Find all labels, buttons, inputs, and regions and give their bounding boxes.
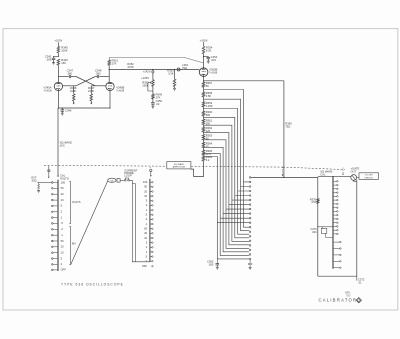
svg-text:+105V: +105V [141,76,149,80]
current switch contact 10 [150,237,152,239]
gate switch contact 13 [334,225,337,227]
current switch contact 50 [150,228,152,230]
switch 3 contact 3 [249,186,251,188]
svg-text:75Ω: 75Ω [285,125,290,129]
svg-text:.01: .01 [358,280,362,284]
gate switch lower contact 4 [334,260,340,262]
current switch contact 1 [150,209,152,211]
svg-text:LOOP: LOOP [124,173,132,177]
wire switch 3 output to right [251,176,318,178]
current switch contact 5 [150,242,152,244]
ground below C354 [207,60,210,62]
crossover diagonal A (V345A plate to V345B grid) [76,77,95,86]
svg-text:10: 10 [144,236,147,240]
resistor R353 to ground [174,70,176,80]
wire bracket output diagonal to CAL OUT jack [71,181,108,265]
wire R345 to junction [57,53,59,57]
wire ladder segment above R357 [203,81,205,82]
wire gate section bottom rail [318,275,357,277]
gate switch contact 8 [334,207,337,209]
wire divider tap 1 drop [204,90,250,182]
wiper arrow voltage switch [57,176,59,178]
wire cathode to divider top [203,76,205,80]
gate switch contact 9 [334,210,337,212]
wire R351 top runs right [109,57,184,59]
Tektronix crafted-symbol [356,297,362,303]
pot wiper arrow [148,82,150,84]
current switch OFF stub [152,266,154,268]
voltage switch contact .1 [52,234,54,236]
current switch contact .2 [150,218,152,220]
wire divider tap 10 lower branch [217,223,249,259]
svg-text:100: 100 [143,180,148,184]
wire V345B plate coupling run [99,76,109,78]
wire jack to loop terminal [120,179,124,181]
wire divider tap 7 lower branch [226,209,249,248]
gate section left rail [317,177,319,276]
svg-text:CIRCUIT: CIRCUIT [364,177,374,179]
wire divider tap 4 lower branch [235,196,249,238]
capacitor C345 [52,57,56,59]
node 75 ohm line junction [283,177,284,178]
wire divider tap 5 lower branch [232,200,249,241]
switch 3 contact 13 [249,231,251,233]
wire divider tap 10 drop [204,157,250,223]
wire ladder bottom to amplitude pot [191,161,204,176]
current switch contact 5 [150,200,152,202]
wire V345A cathode down [57,91,59,108]
svg-text:+100V: +100V [54,39,62,43]
svg-text:8.2K: 8.2K [206,48,212,52]
svg-text:10: 10 [61,251,64,255]
svg-text:½ 6U8: ½ 6U8 [209,71,217,75]
svg-text:50: 50 [144,185,147,189]
voltage switch contact 2 [52,211,54,213]
resistor R366 6.2 (divider) [202,156,205,161]
svg-text:10: 10 [61,198,64,202]
potentiometer R350 SQ WAVE AMPL [152,80,155,87]
current switch contact 100 [150,181,152,183]
wire divider tap 9 lower branch [220,218,249,255]
wire ladder segment above R366 [203,154,205,157]
panel bubble (adjust) on divider [152,70,154,71]
voltage switch contact 2 [52,264,54,266]
svg-text:100K: 100K [61,49,67,53]
wire ladder segment above R361 [203,116,205,119]
switch 3 contact 16 [249,245,251,247]
wire loop legs to current switch bottom [132,259,150,262]
switch 3 contact 4 [249,190,251,192]
wire pot to R350B [152,86,154,93]
voltage switch contact 5 [52,258,54,260]
voltage switch contact 1 [52,217,54,219]
switch 3 contact 18 [249,254,251,256]
voltage switch contact .2 [52,229,54,231]
svg-text:MV: MV [72,242,76,246]
current switch contact .5 [150,214,152,216]
wire divider tap 9 drop [204,153,250,218]
svg-text:20: 20 [144,189,147,193]
arrow to -150V (left grid return) [73,101,75,104]
svg-text:50: 50 [61,186,64,190]
TO CRT CIRCUIT box [359,173,379,180]
ground below R343 [37,190,40,192]
wire R351 to plate [108,65,110,76]
node plate supply junction [58,56,59,57]
svg-text:470K: 470K [127,65,133,69]
svg-text:3.3K: 3.3K [168,72,174,76]
voltage switch contact 10 [52,199,54,201]
gate switch contact 3 [334,188,337,190]
wire divider tap 5 drop [204,125,250,200]
svg-text:20: 20 [61,192,64,196]
wire loop leg A down [129,180,132,258]
wire C347 to crossover [71,76,76,78]
svg-text:C346: C346 [65,109,72,113]
wire divider tap 2 drop [204,99,250,186]
wire divider tap 1 lower branch [244,182,250,227]
wire output run to 75 ohm line [204,80,284,82]
voltage switch contact .5 [52,223,54,225]
triode V345A [54,82,62,90]
ground below switch 3 stub [249,266,252,268]
svg-text:SQ WAVE: SQ WAVE [174,163,185,166]
svg-text:1KC: 1KC [60,143,65,147]
voltage switch OFF contact [52,269,54,271]
ganged switch dashed line [44,164,167,167]
wire ladder segment above R364 [203,140,205,143]
current switch contact .1 [150,223,152,225]
wire R346 to V345A plate [57,65,59,82]
wire divider tap 6 drop [204,133,250,205]
switch 3 contact 9 [249,213,251,215]
svg-text:.001: .001 [211,58,217,62]
svg-text:VOLTS: VOLTS [60,176,69,180]
wire divider tap 4 drop [204,117,250,195]
gate switch lower contact 5 [334,267,340,269]
svg-text:360: 360 [68,71,73,75]
switch 3 contact 14 [249,236,251,238]
resistor R345 [57,47,60,53]
wire gate wiper feed [318,175,351,177]
svg-text:100: 100 [61,180,66,184]
wire connector to box [357,177,359,179]
wire ladder segment above R358 [203,87,205,92]
ground below C346 [61,112,64,114]
svg-text:TO CRT: TO CRT [365,175,374,177]
wire divider tap 3 lower branch [238,191,249,234]
svg-text:250: 250 [206,121,211,125]
wire ladder segment above R365 [203,148,205,151]
svg-text:20: 20 [144,231,147,235]
wire ladder segment above R359 [203,97,205,102]
wire R350B to C350 [152,99,154,103]
wire divider tap 3 drop [204,109,250,192]
wire ladder segment above R360 [203,107,205,111]
gate switch contact 1 [334,180,337,182]
wire 75 ohm drop line [283,81,285,178]
voltage switch rotor bus [57,180,59,271]
svg-text:50: 50 [144,227,147,231]
current probe loop wire [125,178,128,179]
wire diagonal to +100V node [184,57,203,63]
resistor R362 125 (divider) [202,127,205,132]
svg-text:.005: .005 [46,58,52,62]
svg-text:220K: 220K [88,89,94,93]
wire loop leg B down [132,184,135,259]
jack mounting square [117,179,120,183]
capacitor C365 [216,259,218,264]
resistor R370 in left rail [317,199,320,204]
wire ladder segment above R363 [203,132,205,134]
wire RC branch to rotor [318,226,333,228]
gate switch contact 11 [334,218,337,220]
svg-text:CALIBRATOR: CALIBRATOR [319,297,358,302]
wire V345B cathode down [109,91,111,108]
resistor R354 [202,46,205,54]
switch 3 contact 12 [249,226,251,228]
triode V352B cathode follower [199,68,208,77]
switch 3 bottom stub contact [248,263,249,264]
resistor R364 25 (divider) [202,142,205,147]
capacitor C350 [151,102,155,104]
resistor R350B 27K [152,94,155,99]
capacitor C354 [207,56,211,58]
gate switch contact 15 [334,233,337,235]
switch 3 contact 15 [249,240,251,242]
capacitor C348 (right coupling) [96,75,98,78]
node V345B plate output [109,69,110,70]
svg-text:75Ω: 75Ω [182,66,187,70]
switch 3 contact 19 [249,258,251,260]
svg-text:.005: .005 [208,263,214,267]
voltage switch contact 10 [52,252,54,254]
ground below C365 [216,266,219,268]
voltage switch contact 100 [52,182,54,184]
crossover diagonal B (V345B plate to V345A grid) [76,77,95,86]
wire to C345 [54,56,59,58]
voltage switch contact 20 [52,193,54,195]
svg-text:AMPLITUDE: AMPLITUDE [173,166,186,169]
switch 3 contact 6 [249,199,251,201]
bracket VOLTS group [69,182,70,224]
current switch contact 2 [150,246,152,248]
triode V345B [106,82,114,90]
resistor R365 12.5 (divider) [202,150,205,155]
ground below C350 [152,105,155,107]
current switch contact .2 [150,260,152,262]
current switch contact 20 [150,232,152,234]
switch 3 contact 11 [249,222,251,224]
svg-text:50Ω: 50Ω [32,179,37,183]
svg-text:25: 25 [206,144,209,148]
gate switch contact 12 [334,222,337,224]
resistor R359 1.25K (divider) [202,102,205,107]
capacitor C347 (left coupling) [68,75,70,78]
wire divider tap 2 lower branch [241,187,250,231]
wire grid V345A entry [62,85,76,87]
resistor R357 5K (divider) [202,82,205,87]
switch 3 contact 10 [249,217,251,219]
current switch contact 10 [150,195,152,197]
ground below C345 [52,62,55,64]
svg-text:½ 6U8: ½ 6U8 [44,89,52,93]
current switch contact .5 [150,256,152,258]
wire ladder segment above R362 [203,125,205,127]
resistor R347 (V345B grid) [90,86,92,94]
gate switch lower contact 2 [334,248,340,250]
svg-text:27K: 27K [156,95,161,99]
svg-text:6.2: 6.2 [206,158,210,162]
svg-text:15K: 15K [61,61,66,65]
gate switch contact 4 [334,192,337,194]
current switch contact 2 [150,204,152,206]
wire C370 connections [322,227,324,229]
resistor R361 250 (divider) [202,119,205,124]
svg-text:27K: 27K [112,61,117,65]
svg-text:27K: 27K [311,200,316,204]
gate switch contact 7 [334,203,337,205]
node C354 branch [203,56,204,57]
svg-text:500: 500 [206,113,211,117]
current switch rotor bus [149,179,151,262]
wire divider tap 6 lower branch [229,205,249,245]
svg-text:½ 6U8: ½ 6U8 [116,89,124,93]
resistor R351 (V345B plate load) [108,60,111,66]
wire square wave feed to voltage switch [57,108,59,176]
switch 3 contact 7 [249,204,251,206]
voltage switch contact 50 [52,240,54,242]
svg-text:20: 20 [61,245,64,249]
resistor R358 2.5K (divider) [202,92,205,97]
resistor R363 50 (divider) [202,134,205,139]
wire bottom stub [356,276,358,280]
gate switch contact 2 [334,184,337,186]
wire wiper tap [148,83,153,91]
svg-text:+142V: +142V [143,70,151,74]
gate switch contact 6 [334,199,337,201]
wire divider tap 8 lower branch [223,214,249,252]
switch 3 contact 2 [249,181,251,183]
switch 3 contact 1 [249,177,251,179]
capacitor C346 to ground [61,108,63,110]
svg-text:OFF: OFF [142,264,148,268]
coupling capacitor C344 from gang line [48,166,50,170]
ganged dashed drop and bubble (current switch) [150,167,152,169]
node divider top [203,80,204,81]
gate switch contact 14 [334,229,337,231]
wire EXT input [37,182,51,184]
svg-text:OUT: OUT [351,170,357,174]
wire main square-wave line to follower grid [109,69,199,71]
switch 3 contact 17 [249,249,251,251]
gate switch lower contact 1 [334,241,340,243]
wire divider tap 7 drop [204,140,250,209]
voltage switch contact 20 [52,246,54,248]
voltage switch contact 5 [52,205,54,207]
svg-text:2.5K: 2.5K [206,94,212,98]
wire to C354 [204,56,209,59]
wire bubble to pot [152,73,154,80]
resistor R360 500 (divider) [202,111,205,116]
gate switch contact 5 [334,195,337,197]
gate section right rail [356,180,358,277]
ganged dashed drop (gate switch) [342,168,344,174]
svg-text:220K: 220K [70,89,76,93]
bracket MILLIVOLTS group [69,227,70,265]
current probe loop terminals [124,179,126,181]
svg-text:.02: .02 [156,102,160,106]
svg-text:1.25K: 1.25K [206,104,213,108]
resistor R343 EXT termination [38,183,40,185]
svg-text:5K: 5K [206,84,209,88]
wire divider tap 8 drop [204,147,250,213]
capacitor C370 box [321,228,327,233]
svg-text:OFF: OFF [61,268,67,272]
gate switch rotor bus [332,176,334,268]
resistor R346 [57,59,60,65]
switch 3 contact 5 [249,195,251,197]
svg-text:50: 50 [61,239,64,243]
svg-text:+100V: +100V [200,38,208,42]
ganged-switch dashed drop (switch 3) [282,167,284,175]
+GATE output connector [351,175,357,181]
resistor R348 (V345A grid) [73,86,75,94]
current switch contact 20 [150,191,152,193]
svg-text:VOLTS: VOLTS [72,200,81,204]
wire cathode rail [58,107,110,109]
parasitic suppressor bead on grid line [177,68,180,71]
wire V345A plate coupling run [58,76,68,78]
node divider pickoff [152,69,153,70]
wire C348 to crossover [95,76,97,78]
svg-text:360: 360 [96,71,101,75]
voltage switch contact 50 [52,188,54,190]
CAL OUT jack oval [108,178,116,182]
arrow to -150V (right grid return) [90,101,92,104]
svg-text:.001: .001 [312,230,318,234]
svg-text:10: 10 [144,194,147,198]
wire R354 to plate [203,54,205,68]
switch 3 contact 8 [249,208,251,210]
SQ WAVE AMPLITUDE control box [167,162,191,169]
gate switch contact 10 [334,214,337,216]
gate switch lower contact 3 [334,254,340,256]
current switch contact 1 [150,251,152,253]
current switch contact 50 [150,186,152,188]
ground below R353 [173,87,176,89]
wire grid V345B entry [91,85,106,87]
svg-text:TYPE 536 OSCILLOSCOPE: TYPE 536 OSCILLOSCOPE [61,282,124,286]
